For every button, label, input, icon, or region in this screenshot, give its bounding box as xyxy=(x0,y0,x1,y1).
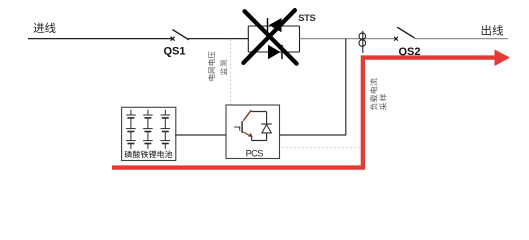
svg-text:PCS: PCS xyxy=(246,148,264,158)
svg-text:QS1: QS1 xyxy=(164,45,186,57)
svg-text:STS: STS xyxy=(298,12,315,23)
